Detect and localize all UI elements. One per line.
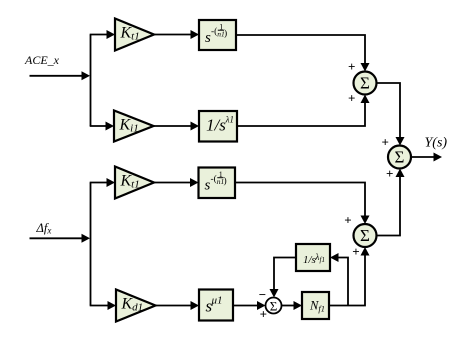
wire Sum3 output Y(s)	[411, 153, 442, 162]
svg-text:μ1: μ1	[211, 295, 223, 307]
svg-text:Σ: Σ	[360, 74, 370, 93]
wire ACE_x branch vertical	[90, 35, 92, 127]
svg-text:+: +	[386, 166, 393, 181]
wire 1/s^lambda f1 to Sum4 top	[270, 258, 297, 298]
wire branch to Kt1 top	[90, 30, 115, 39]
summer Sum1	[354, 72, 377, 95]
summer Sum4	[266, 298, 282, 314]
block Nf1	[302, 292, 329, 319]
svg-text:Σ: Σ	[360, 226, 370, 245]
svg-text:): )	[224, 28, 227, 39]
wire branch to Kt1 bottom	[90, 178, 115, 187]
svg-text:+: +	[348, 91, 355, 106]
svg-text:1/s: 1/s	[206, 116, 226, 135]
svg-text:λ1: λ1	[225, 115, 234, 125]
summer Sum3	[388, 146, 411, 169]
block s^-(1/n1) (top)	[199, 20, 236, 50]
block 1/s^lambda1	[199, 111, 237, 142]
wire Ki1 to block	[154, 122, 200, 131]
svg-text:Y(s): Y(s)	[425, 136, 448, 151]
svg-text:Σ: Σ	[395, 148, 405, 167]
wire Sum4 to Nf1	[282, 301, 303, 310]
wire Nf1 to Sum2 bottom	[329, 247, 370, 306]
block s^mu1	[199, 290, 233, 321]
wire feedback junction up to 1/s^lambda f1	[330, 253, 348, 306]
svg-text:Σ: Σ	[270, 299, 278, 314]
svg-text:−: −	[259, 287, 266, 302]
svg-text:+: +	[348, 59, 355, 74]
gain Kt1 (bottom)	[115, 167, 154, 199]
wire branch to Kd1	[90, 301, 116, 310]
wire Kt1 to block (bottom)	[154, 178, 199, 187]
svg-text:1/s: 1/s	[303, 254, 316, 266]
wire block to Sum2 top	[235, 183, 370, 225]
wire s^mu1 to Sum4	[233, 301, 266, 310]
svg-text:ACE_x: ACE_x	[24, 53, 60, 67]
block 1/s^lambda f1	[296, 244, 330, 271]
svg-text:+: +	[352, 244, 359, 259]
wire branch to Ki1	[90, 122, 114, 131]
wire block to Sum1 top	[236, 35, 370, 72]
gain Kd1	[116, 290, 156, 322]
wire block to Sum1 bottom	[237, 95, 370, 127]
block s^-(1/n1) (bottom)	[199, 168, 236, 199]
wire Sum1 to Sum3	[377, 83, 405, 146]
svg-text:f1: f1	[320, 256, 325, 264]
wire Kd1 to s^mu1	[156, 301, 200, 310]
summer Sum2	[354, 224, 377, 247]
svg-text:+: +	[382, 135, 389, 150]
gain Ki1	[114, 111, 154, 142]
wire Delta f branch vertical	[90, 183, 92, 306]
svg-text:): )	[224, 176, 227, 187]
svg-text:+: +	[344, 213, 351, 228]
wire ACE_x input arrow	[30, 71, 91, 80]
wire Delta f input arrow	[30, 234, 91, 243]
wire Sum2 to Sum3	[377, 169, 405, 236]
gain Kt1 (top)	[115, 19, 154, 51]
wire Kt1 to block	[154, 30, 199, 39]
